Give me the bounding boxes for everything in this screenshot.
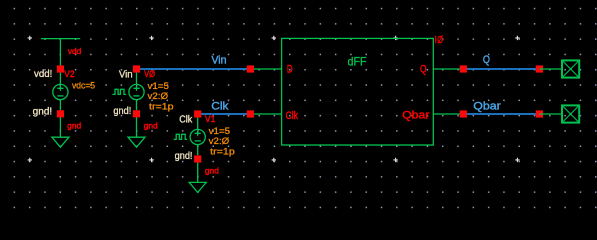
junction square Q right (536, 65, 543, 72)
wire Vin (137, 68, 251, 70)
output pin stub Q (539, 68, 562, 70)
junction square V1 minus (194, 155, 201, 162)
svg-text:Vin: Vin (119, 70, 133, 81)
svg-text:gnd: gnd (205, 167, 219, 176)
output pin symbol Q (562, 60, 579, 77)
voltage source V2 (vdc) (53, 73, 68, 111)
output pin symbol Qbar (562, 105, 579, 122)
junction square V0 plus (133, 65, 140, 72)
junction square V2 minus (57, 110, 64, 117)
svg-text:gnd!: gnd! (33, 107, 53, 118)
output pin stub Qbar (539, 113, 562, 115)
svg-text:V2: V2 (64, 69, 75, 79)
junction square V0 minus (133, 110, 140, 117)
voltage source V1 (vpulse) (174, 118, 206, 156)
wire Q (463, 68, 539, 70)
svg-text:tr=1p: tr=1p (149, 101, 174, 112)
svg-text:D: D (287, 64, 293, 76)
svg-text:Q: Q (420, 64, 427, 76)
svg-text:vdd!: vdd! (34, 69, 52, 80)
dFF block I0 (282, 38, 434, 145)
svg-text:Q: Q (483, 54, 490, 66)
vdd symbol (41, 39, 80, 66)
junction square Clk wire (247, 110, 254, 117)
svg-text:Clk: Clk (211, 101, 229, 113)
junction square D wire (247, 65, 254, 72)
junction square Q left (460, 65, 467, 72)
svg-text:vdc=5: vdc=5 (72, 80, 95, 91)
ground symbol (V1) (189, 163, 206, 193)
pin stub Clk (250, 113, 281, 115)
wire Clk (198, 113, 251, 115)
junction square Qbar left (460, 110, 467, 117)
svg-text:Vin: Vin (211, 54, 226, 66)
svg-text:tr=1p: tr=1p (210, 146, 235, 157)
svg-text:VØ: VØ (144, 69, 155, 79)
junction square Qbar right (536, 110, 543, 117)
svg-text:gnd: gnd (144, 122, 158, 131)
svg-text:gnd!: gnd! (113, 106, 131, 117)
svg-text:Qbar: Qbar (402, 110, 430, 122)
svg-text:vdd: vdd (68, 47, 81, 56)
wire Qbar (463, 113, 539, 115)
junction square V1 plus (194, 110, 201, 117)
ground symbol (V2) (52, 117, 69, 147)
svg-text:Clk: Clk (286, 110, 299, 122)
pin stub D (250, 68, 281, 70)
svg-text:gnd!: gnd! (175, 151, 193, 162)
svg-text:Clk: Clk (179, 115, 193, 126)
ground symbol (V0) (128, 117, 145, 147)
svg-text:Qbar: Qbar (473, 101, 501, 113)
junction square V2 plus (57, 65, 64, 72)
pin stub Qbar (433, 113, 463, 115)
voltage source V0 (vpulse) (112, 73, 144, 111)
pin stub Q (433, 68, 463, 70)
svg-text:dFF: dFF (348, 54, 367, 68)
svg-text:V1: V1 (205, 114, 216, 124)
svg-text:Ø: Ø (437, 34, 443, 46)
svg-text:gnd: gnd (67, 122, 81, 131)
